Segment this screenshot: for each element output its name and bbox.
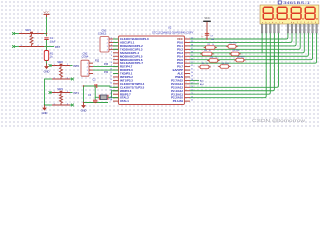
junction	[266, 62, 267, 63]
wire segment row 3 to display pin	[190, 33, 300, 49]
U2 pin 23	[185, 97, 191, 99]
svg-text:8550: 8550	[225, 63, 229, 65]
wire	[50, 78, 52, 80]
U2 pin 15	[113, 86, 119, 88]
ground for buttons	[44, 104, 45, 105]
svg-text:P33: P33	[104, 64, 109, 66]
wire segment row 0 to display pin	[190, 33, 288, 39]
junction	[83, 85, 84, 86]
U2 pin 29	[185, 76, 191, 78]
display digit 2	[277, 7, 287, 19]
wire	[50, 65, 52, 67]
svg-text:8550: 8550	[233, 43, 237, 45]
U2 pin 30	[185, 73, 191, 75]
U2 pin 17	[113, 93, 119, 95]
svg-text:2: 2	[111, 41, 112, 43]
svg-text:STC12C5A60S2-35I-PDIP40 COPY: STC12C5A60S2-35I-PDIP40 COPY	[152, 30, 194, 34]
svg-text:P2.1/A9: P2.1/A9	[173, 99, 184, 103]
junction	[274, 56, 275, 57]
wire	[14, 46, 20, 48]
junction	[95, 102, 96, 103]
U2 pin 24	[185, 93, 191, 95]
wire stem	[200, 53, 202, 55]
svg-text:GND: GND	[42, 111, 48, 115]
display pin	[308, 24, 310, 33]
svg-text:RST: RST	[55, 46, 60, 49]
wire digit pin 1	[261, 33, 263, 53]
display pin	[278, 24, 280, 33]
svg-text:CON4: CON4	[82, 56, 89, 59]
capacitor C1 10uF	[44, 37, 48, 39]
junction	[278, 52, 279, 53]
svg-text:6: 6	[111, 55, 112, 57]
wire stem	[204, 47, 206, 49]
display DS1 3461BS	[278, 1, 281, 4]
junction	[46, 33, 48, 35]
wire	[14, 33, 20, 35]
transistor/resistor R3	[202, 52, 212, 56]
node end	[71, 78, 74, 81]
wire	[50, 92, 52, 94]
wire	[113, 45, 119, 47]
svg-text:14: 14	[110, 82, 112, 84]
U2 pin 14	[113, 83, 119, 85]
display pin	[304, 24, 306, 33]
node end	[49, 64, 52, 67]
U2 pin 2	[113, 41, 119, 43]
transistor/resistor R4	[209, 59, 218, 63]
wire	[113, 48, 119, 50]
capacitor C7 104	[205, 32, 209, 34]
transistor/resistor R2	[206, 46, 216, 50]
svg-text:P32: P32	[95, 61, 100, 63]
node end	[71, 104, 74, 107]
junction	[206, 38, 208, 40]
U2 pin 26	[185, 86, 191, 88]
U2 pin 5	[113, 52, 119, 54]
node unconnected end top	[12, 32, 15, 35]
wire xtal left vertical	[83, 86, 85, 103]
transistor/resistor Q3	[236, 58, 244, 62]
wire digit pin 2	[190, 33, 266, 98]
transistor/resistor Q2	[231, 52, 239, 56]
svg-text:P34: P34	[104, 72, 109, 74]
svg-text:30: 30	[191, 72, 193, 74]
svg-text:10uF: 10uF	[50, 40, 56, 43]
U2 pin 35	[185, 55, 191, 57]
wire segment row 4 to display pin	[190, 33, 304, 53]
svg-text:29: 29	[191, 76, 193, 78]
wire VCC to cap	[46, 17, 48, 36]
ground	[83, 102, 84, 103]
wire segment row 5 to display pin	[190, 33, 308, 56]
U2 pin 18	[113, 97, 119, 99]
svg-text:8550: 8550	[240, 56, 244, 58]
wire segment row 1 to display pin	[190, 33, 292, 42]
resistor R1	[46, 47, 48, 51]
U2 pin 33	[185, 62, 191, 64]
wire	[113, 38, 119, 40]
U2 pin 37	[185, 48, 191, 50]
display pin	[291, 24, 293, 33]
display pin	[270, 24, 272, 33]
svg-text:13: 13	[110, 79, 112, 81]
junction RST node	[46, 46, 48, 48]
display pin	[274, 24, 276, 33]
U2 pin 31	[185, 69, 191, 71]
svg-text:32: 32	[191, 65, 193, 67]
transistor/resistor R5	[200, 65, 209, 69]
svg-text:22: 22	[191, 100, 193, 102]
svg-text:12: 12	[110, 76, 112, 78]
wire	[50, 104, 52, 106]
wire joining SW2/SW3 left pins	[45, 79, 51, 105]
wire stub row12	[190, 79, 199, 81]
wire cap row to U2 XTAL2	[110, 86, 119, 87]
svg-text:9: 9	[111, 65, 112, 67]
svg-text:CSDN @tomorrow: CSDN @tomorrow	[252, 118, 306, 123]
wire stem	[226, 45, 228, 47]
svg-text:dp 1 2 3 4 5 6: dp 1 2 3 4 5 6	[291, 22, 316, 24]
svg-text:4: 4	[111, 48, 112, 50]
wire CON2 pin2 to U2	[93, 66, 119, 68]
U2 pin 38	[185, 45, 191, 47]
wire stem	[218, 66, 220, 68]
wire stub	[114, 73, 119, 75]
wire xtal top rail	[84, 85, 111, 87]
transistor/resistor Q1	[228, 45, 236, 49]
wire CON2 pin3 to U2	[93, 69, 119, 71]
U2 pin 36	[185, 52, 191, 54]
svg-text:17: 17	[110, 93, 112, 95]
wire stem	[229, 53, 231, 55]
svg-text:3461BS-1: 3461BS-1	[283, 1, 310, 5]
svg-text:11: 11	[110, 72, 112, 74]
U2 pin 40	[185, 38, 191, 40]
svg-text:1: 1	[111, 38, 112, 40]
U2 pin 10	[113, 69, 119, 71]
wire stub row13	[190, 83, 199, 85]
transistor/resistor Q4	[220, 65, 229, 69]
svg-text:U2: U2	[168, 26, 172, 30]
display pin	[312, 24, 314, 33]
svg-text:INT1: INT1	[74, 92, 80, 95]
display pin	[316, 24, 318, 33]
U2 pin 8	[113, 62, 119, 64]
U2 pin 6	[113, 55, 119, 57]
U2 pin 32	[185, 66, 191, 68]
wire RST stub	[47, 46, 55, 48]
svg-text:10: 10	[110, 69, 112, 71]
wire stem	[198, 66, 200, 68]
display digit 4	[305, 7, 315, 19]
svg-text:16: 16	[110, 89, 112, 91]
node end	[49, 91, 52, 94]
U2 pin 3	[113, 45, 119, 47]
display pin	[265, 24, 267, 33]
svg-text:GND: GND	[44, 70, 50, 74]
U2 pin 11	[113, 73, 119, 75]
svg-text:VCC: VCC	[44, 10, 50, 14]
U2 pin 19	[113, 100, 119, 102]
wire segment row 6 to display pin	[190, 33, 313, 60]
svg-text:1k: 1k	[215, 57, 217, 59]
U2 pin 28	[185, 79, 191, 81]
svg-text:XTAL1: XTAL1	[120, 99, 129, 103]
crystal Y1	[95, 96, 99, 98]
svg-text:1k: 1k	[209, 50, 211, 52]
U2 pin 9	[113, 66, 119, 68]
wire digit pin 4	[190, 33, 274, 91]
wire	[113, 41, 119, 43]
wire digit pin 5	[190, 33, 279, 87]
wire segment row 7 to display pin	[190, 33, 317, 63]
U2 pin 34	[185, 59, 191, 61]
junction	[270, 59, 271, 60]
wire digit pin 3	[190, 33, 270, 94]
wire R1 to ground	[46, 61, 48, 64]
U2 pin 22	[185, 100, 191, 102]
U2 pin 25	[185, 90, 191, 92]
wire mid vertical	[94, 86, 96, 97]
display digit 1	[263, 7, 273, 19]
svg-text:3: 3	[111, 45, 112, 47]
U2 pin 39	[185, 41, 191, 43]
svg-text:VCC: VCC	[204, 17, 209, 20]
display pin	[299, 24, 301, 33]
U2 pin 7	[113, 59, 119, 61]
U2 pin 27	[185, 83, 191, 85]
svg-text:8550: 8550	[236, 50, 240, 52]
display pin	[287, 24, 289, 33]
display pin	[295, 24, 297, 33]
wire segment row 2 to display pin	[190, 33, 296, 46]
wire overlays into U2	[113, 38, 119, 40]
svg-text:8: 8	[111, 62, 112, 64]
display pin	[261, 24, 263, 33]
U2 pin 4	[113, 48, 119, 50]
svg-text:19: 19	[110, 100, 112, 102]
wire xtal bottom rail	[84, 102, 109, 104]
U2 pin 1	[113, 38, 119, 40]
svg-text:SW2: SW2	[57, 60, 63, 64]
svg-text:GND: GND	[81, 109, 87, 113]
node unconnected end bottom	[12, 45, 15, 48]
wire stem	[207, 60, 209, 62]
svg-text:7: 7	[111, 58, 112, 60]
svg-text:15: 15	[110, 86, 112, 88]
wire	[112, 97, 119, 99]
U2 pin 16	[113, 90, 119, 92]
svg-text:a b c d e f g: a b c d e f g	[262, 22, 283, 24]
svg-text:SW3: SW3	[57, 87, 63, 91]
wire crystal to U2 XTAL1	[108, 91, 119, 98]
display digit 3	[291, 7, 301, 19]
svg-text:18: 18	[110, 96, 112, 98]
svg-text:1k: 1k	[212, 44, 214, 46]
svg-text:INT0: INT0	[74, 65, 80, 68]
svg-text:SW1: SW1	[25, 28, 31, 32]
svg-text:31: 31	[191, 69, 193, 71]
ground	[46, 64, 48, 67]
wire stem	[234, 59, 236, 61]
svg-text:1k: 1k	[206, 63, 208, 65]
svg-text:CON12: CON12	[98, 33, 107, 36]
U2 pin 12	[113, 76, 119, 78]
U2 pin 13	[113, 79, 119, 81]
svg-text:5: 5	[111, 51, 112, 53]
